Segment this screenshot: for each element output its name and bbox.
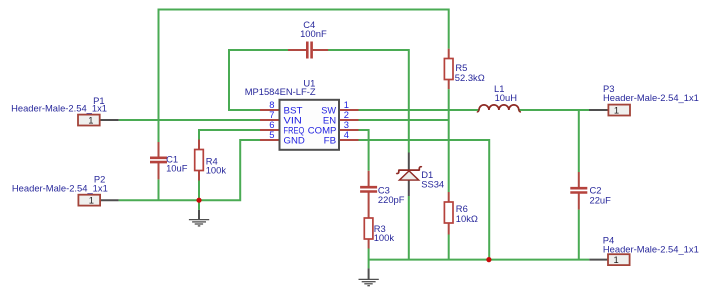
header P1: [78, 115, 100, 126]
wire R5 bottom to R6 top: [448, 89, 450, 192]
resistor R4: [198, 140, 200, 150]
header P4: [608, 254, 630, 265]
svg-text:Header-Male-2.54_1x1: Header-Male-2.54_1x1: [12, 183, 108, 194]
inductor L1: [479, 105, 519, 110]
svg-text:10kΩ: 10kΩ: [456, 213, 478, 224]
svg-text:1: 1: [88, 114, 93, 125]
diode D1 pin top: [408, 153, 410, 171]
capacitor C1: [158, 142, 160, 179]
wire bottom rail: [369, 259, 590, 261]
wire FB to bottom rail: [359, 140, 490, 260]
U1 pin numbers left: [269, 99, 274, 140]
svg-text:MP1584EN-LF-Z: MP1584EN-LF-Z: [245, 86, 316, 97]
svg-text:1: 1: [614, 104, 619, 115]
capacitor C3: [368, 171, 370, 188]
U1 pin numbers right: [344, 99, 349, 140]
ground at R3: [359, 268, 379, 285]
P4 header pin line: [589, 259, 608, 261]
svg-text:GND: GND: [284, 136, 305, 147]
svg-text:10uH: 10uH: [495, 92, 517, 103]
wire C2 bottom to bottom rail: [578, 210, 580, 260]
wire R4 bottom to ground junction: [198, 181, 200, 210]
svg-text:1: 1: [89, 195, 94, 206]
U1 pin stubs right: [339, 110, 359, 140]
svg-text:1: 1: [614, 254, 619, 265]
IC U1 body: [280, 100, 340, 150]
P2 header pin line: [100, 199, 119, 201]
svg-text:100k: 100k: [374, 232, 395, 243]
D1 pin bottom: [408, 180, 410, 196]
wire SW to L1: [359, 109, 480, 111]
P1 header pin line: [100, 119, 119, 121]
wire D1 anode to bottom rail: [408, 196, 410, 260]
junction at R4 bottom on P2 rail: [196, 198, 201, 203]
wire top rail VIN to R5: [159, 10, 449, 143]
U1 pin names left: [284, 106, 305, 147]
wire FREQ to R4: [199, 130, 260, 140]
svg-text:100nF: 100nF: [300, 28, 327, 39]
resistor R5: [448, 49, 450, 59]
U1 pin names right: [308, 106, 337, 147]
svg-text:52.3kΩ: 52.3kΩ: [455, 72, 485, 83]
svg-text:Header-Male-2.54_1x1: Header-Male-2.54_1x1: [11, 103, 107, 114]
svg-text:FB: FB: [324, 136, 337, 147]
resistor R6: [448, 192, 450, 202]
wire R6 bottom to bottom rail: [448, 235, 450, 260]
ground at R4 / P2 rail: [189, 210, 209, 226]
wire BST to C4 left: [229, 50, 288, 110]
wire R3 bottom to ground: [368, 249, 370, 269]
svg-text:5: 5: [269, 129, 274, 140]
wire VIN P1 to U1: [119, 119, 260, 121]
svg-text:Header-Male-2.54_1x1: Header-Male-2.54_1x1: [603, 92, 699, 103]
diode D1: [396, 167, 422, 174]
resistor R3: [368, 239, 370, 249]
svg-text:SS34: SS34: [421, 179, 444, 190]
wire C4 right to SW node down to D1: [328, 50, 409, 153]
op-amp U1 pin stubs left: [260, 110, 280, 140]
header P3: [608, 105, 630, 116]
capacitor C4: [288, 49, 328, 51]
wire C1 bottom to P2 rail: [158, 179, 160, 200]
wire EN to R5 R6 column: [359, 119, 449, 121]
svg-text:22uF: 22uF: [590, 194, 612, 205]
header P2: [78, 195, 100, 206]
wire COMP to C3: [359, 130, 369, 171]
svg-text:Header-Male-2.54_1x1: Header-Male-2.54_1x1: [603, 244, 699, 255]
svg-text:10uF: 10uF: [166, 163, 188, 174]
svg-text:220pF: 220pF: [378, 194, 405, 205]
junction FB on bottom rail: [486, 257, 491, 262]
wire C2 top branch: [578, 110, 580, 172]
svg-text:100k: 100k: [206, 165, 227, 176]
capacitor C2: [578, 172, 580, 189]
svg-text:4: 4: [344, 129, 349, 140]
P3 header pin line: [589, 109, 608, 111]
wire P2 rail to U1 GND pin: [119, 140, 260, 200]
wire L1 to P3 and C2 branch: [519, 109, 589, 111]
